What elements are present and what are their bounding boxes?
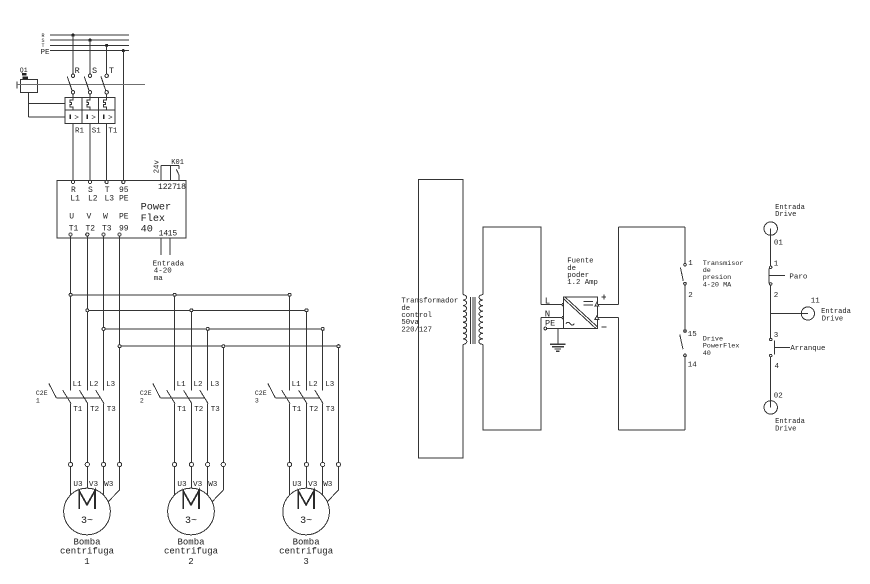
svg-text:centrifuga: centrifuga [60,547,115,557]
svg-text:99: 99 [119,225,129,234]
wire rail PE to drive terminal 95 [122,51,124,181]
pushbutton Paro (NC) [769,266,808,285]
svg-text:PE: PE [119,195,129,204]
wire overload S1 to drive S [89,124,91,181]
wire bus W to contactor 2 [207,330,209,390]
svg-text:T1: T1 [177,406,187,414]
svg-text:1: 1 [688,260,693,268]
node PE bus tap 3 [337,345,340,348]
node 02 circle [764,401,777,414]
trip I> pole S1 [86,114,96,122]
svg-text:15: 15 [168,229,178,238]
svg-text:U3: U3 [292,481,302,489]
svg-text:U3: U3 [177,481,187,489]
wire overload T1 to drive T [106,124,108,181]
svg-text:18: 18 [176,183,186,192]
svg-text:95: 95 [119,186,129,195]
transformer T1 secondary winding [479,295,483,345]
annotation Entrada 4-20 ma [153,260,185,283]
svg-text:V3: V3 [193,481,203,489]
svg-text:15: 15 [688,331,698,339]
junction dot rail PE [122,49,125,52]
supply rail T (L3) [42,43,130,49]
drive control loop [618,227,685,430]
motor 3 terminal circles [288,462,341,466]
svg-text:Arranque: Arranque [790,345,825,353]
junction dot rail T [105,44,108,47]
wire overload R1 to drive R [72,124,74,181]
svg-text:40: 40 [703,350,711,358]
node 01 circle [764,222,777,235]
svg-text:14: 14 [688,362,698,370]
node U bus tap 1 [69,293,72,296]
svg-text:R: R [75,66,80,76]
svg-text:T1: T1 [292,406,302,414]
svg-text:T2: T2 [86,225,96,234]
wire contactor 2 to motor terminals [175,404,208,463]
stub terminal 14 [160,238,162,255]
ground [550,328,565,351]
mechanical link line [17,84,145,86]
wire switch T to overload [106,94,108,98]
wire bus W to contactor 3 [322,330,324,390]
svg-text:V3: V3 [308,481,318,489]
svg-text:T1: T1 [73,406,83,414]
svg-text:L2: L2 [194,381,203,389]
switch pole S [84,66,97,94]
svg-text:centrifuga: centrifuga [279,547,334,557]
supply rail S (L2) [42,38,130,44]
wire switch R to overload [72,94,74,98]
trip I> pole T1 [103,114,113,122]
svg-text:4-20 MA: 4-20 MA [703,281,732,289]
wire drive V down to motor group 1 [86,236,88,390]
wires motor 3 leads [290,467,339,502]
node V bus tap 2 [190,309,193,312]
annotation Transformador de control 50va 220/127 [401,298,458,335]
wire switch S to overload [89,94,91,98]
contactor C2E 2 [140,381,220,414]
node U bus tap 3 [288,293,291,296]
svg-text:C2E: C2E [140,390,152,397]
svg-text:3~: 3~ [300,516,312,527]
svg-text:Power: Power [141,203,172,214]
wire rail T to switch [106,45,108,74]
wire L to power supply [541,296,565,306]
node U bus tap 2 [173,293,176,296]
svg-text:1.2 Amp: 1.2 Amp [567,279,598,287]
svg-text:T2: T2 [309,406,318,414]
svg-text:L2: L2 [89,381,98,389]
svg-text:S1: S1 [92,127,102,135]
bus PE [120,345,339,347]
svg-text:4: 4 [775,363,780,371]
svg-text:T: T [109,66,114,76]
svg-text:Paro: Paro [789,274,808,282]
svg-text:2: 2 [774,292,779,300]
svg-text:02: 02 [774,393,783,401]
transformer T1 core [471,297,475,344]
heater element pole S1 [87,98,90,111]
svg-text:W3: W3 [208,481,218,489]
svg-text:2: 2 [188,557,193,567]
svg-text:V3: V3 [89,481,99,489]
svg-text:L3: L3 [210,381,220,389]
junction dot rail R [71,34,74,37]
wire rail R to switch [72,35,74,74]
wire contactor 1 to motor terminals [71,404,104,463]
svg-text:L1: L1 [73,381,83,389]
svg-text:Flex: Flex [141,213,165,225]
svg-text:1: 1 [84,557,89,567]
transformer T1 secondary loop [483,227,541,430]
node V bus tap 3 [305,309,308,312]
node 11 circle (Entrada Drive) [771,297,852,323]
svg-text:V: V [87,212,92,221]
svg-text:T3: T3 [326,406,336,414]
svg-text:3: 3 [255,398,259,405]
node W bus tap 2 [206,327,209,330]
svg-text:3~: 3~ [81,516,93,527]
transformer T1 primary winding [463,295,467,345]
svg-text:U3: U3 [73,481,83,489]
node V bus tap 1 [86,309,89,312]
disconnect Q1 [17,67,37,93]
wire bus PE to motor 2 [222,348,224,463]
overload relay block R1 S1 T1 [65,98,115,124]
node W bus tap 3 [321,327,324,330]
wire Q1 to overload block (two links) [29,92,66,117]
pressure transmitter contact 1-2 [680,260,693,300]
svg-text:T: T [105,186,110,195]
svg-text:Drive: Drive [822,316,843,324]
wire supply - to drive loop [597,317,618,319]
node PE bus tap 1 [118,345,121,348]
switch pole T [101,66,114,94]
svg-text:L1: L1 [292,381,302,389]
svg-text:centrifuga: centrifuga [164,547,219,557]
svg-text:3~: 3~ [185,516,197,527]
supply rail PE [41,49,130,57]
supply rail R (L1) [42,33,130,39]
svg-text:Drive: Drive [775,211,796,219]
wire supply + to drive loop [597,303,618,305]
wires motor 2 leads [175,467,224,502]
pushbutton Arranque (NO) [770,338,826,357]
svg-text:40: 40 [141,225,153,236]
svg-text:2: 2 [140,398,144,405]
motor 1 terminal circles [69,462,122,466]
wire contactor 3 to motor terminals [290,404,323,463]
svg-text:PE: PE [119,212,129,221]
motor 1 terminal labels [73,481,113,489]
wire bus V to contactor 3 [306,312,308,391]
motor M2 [164,488,219,567]
wire drive PE down to motor group 1 [119,236,121,462]
annotation Drive PowerFlex 40 [703,335,740,357]
drive run contact 15-14 [680,330,698,370]
svg-text:T3: T3 [107,406,117,414]
motor M3 [279,488,334,567]
svg-text:Drive: Drive [775,426,796,434]
svg-text:PE: PE [41,49,51,57]
svg-text:S: S [92,66,97,76]
annotation Transmisor de presion 4-20 MA [703,260,744,290]
svg-text:220/127: 220/127 [401,326,432,334]
wire drive W down to motor group 1 [103,236,105,390]
contactor C2E 1 [36,381,116,414]
svg-text:L1: L1 [177,381,187,389]
junction dot rail S [88,39,91,42]
svg-text:W3: W3 [323,481,333,489]
svg-text:L2: L2 [309,381,318,389]
motor M1 [60,488,115,567]
svg-text:T1: T1 [69,225,79,234]
motor 3 terminal labels [292,481,332,489]
svg-text:C2E: C2E [36,390,48,397]
svg-text:>: > [74,115,79,123]
svg-text:T2: T2 [90,406,99,414]
svg-text:L3: L3 [105,195,115,204]
wire bus U to contactor 3 [289,296,291,390]
bus U phase [71,294,290,296]
svg-text:>: > [108,115,113,123]
svg-text:T3: T3 [102,225,112,234]
wire Paro to Arranque [770,285,772,338]
svg-text:L1: L1 [70,195,80,204]
svg-text:C2E: C2E [255,390,267,397]
wire bus PE to motor 3 [338,348,340,463]
wire Arranque to 02 [770,357,772,408]
svg-text:T1: T1 [108,127,118,135]
svg-text:Q1: Q1 [20,67,28,74]
heater element pole T1 [104,98,107,111]
stub terminal 15 [169,238,171,255]
svg-text:1: 1 [36,398,40,405]
trip I> pole R1 [69,114,79,122]
wire rail S to switch [89,40,91,74]
power supply U2 (Fuente de poder 1.2 Amp) [563,258,606,329]
wire bus U to contactor 2 [174,296,176,390]
svg-text:01: 01 [774,240,784,248]
motor 2 terminal labels [177,481,217,489]
svg-text:W3: W3 [104,481,114,489]
svg-text:>: > [91,115,96,123]
switch pole R [67,66,80,94]
svg-text:S: S [88,186,93,195]
svg-text:3: 3 [774,332,779,340]
PE terminal of power supply [544,319,564,330]
24v / K01 relay contact [154,159,184,181]
contactor C2E 3 [255,381,335,414]
svg-text:R1: R1 [75,127,85,135]
svg-text:1: 1 [774,261,779,269]
wires motor 1 leads [71,467,120,502]
motor 2 terminal circles [173,462,226,466]
svg-text:2: 2 [688,292,693,300]
svg-text:R: R [71,186,76,195]
annotation Entrada Drive (bottom) [775,418,806,434]
bus W phase [104,328,323,330]
svg-text:L2: L2 [88,195,98,204]
bus V phase [87,309,306,311]
transformer T1 primary loop [419,179,463,458]
drive PowerFlex 40 [57,180,186,238]
node PE bus tap 2 [222,345,225,348]
svg-text:W: W [103,212,108,221]
wire bus V to contactor 2 [190,312,192,391]
svg-text:T3: T3 [211,406,221,414]
heater element pole R1 [70,98,73,111]
svg-text:ma: ma [154,275,164,283]
svg-text:L3: L3 [325,381,335,389]
svg-text:L3: L3 [106,381,116,389]
wire N to power supply [541,309,565,319]
svg-text:T2: T2 [194,406,203,414]
svg-text:11: 11 [811,297,821,305]
wire drive U down to motor group 1 [70,236,72,390]
svg-text:3: 3 [303,557,308,567]
svg-text:U: U [69,212,74,221]
wire 01 to Paro [770,229,772,267]
annotation Entrada Drive (top) [775,204,806,219]
node W bus tap 1 [102,327,105,330]
